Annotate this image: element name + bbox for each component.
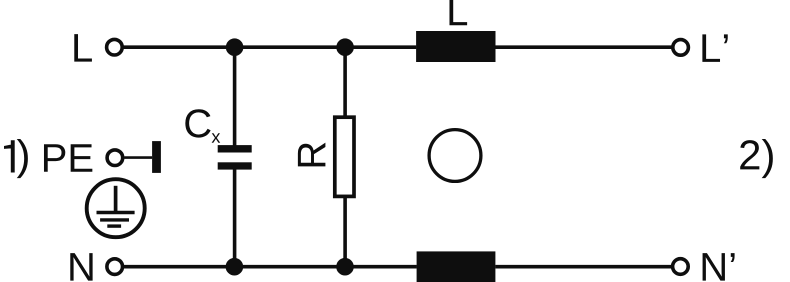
junction dot top-right (336, 38, 354, 56)
label L' (702, 34, 727, 62)
wire PE stub (124, 156, 152, 159)
wire bottom rail right segment (495, 265, 671, 269)
inductor body (bottom) (417, 251, 496, 282)
wire top rail right segment (496, 45, 672, 49)
wire top rail left segment (123, 45, 416, 49)
terminal N (107, 259, 123, 275)
label L (top inductor) (449, 0, 467, 25)
capacitor C plate top (218, 145, 252, 152)
resistor R body (335, 117, 354, 196)
junction dot bottom-left (226, 258, 244, 276)
footnote 2) (740, 139, 773, 178)
wire bottom rail left segment (124, 265, 417, 269)
wire resistor branch upper (343, 47, 347, 115)
label PE (44, 144, 92, 172)
terminal PE (107, 150, 123, 166)
terminal L (107, 39, 123, 55)
earth symbol bar 2 (100, 218, 129, 221)
label N (left terminal) (70, 253, 92, 281)
wire resistor branch lower (343, 197, 347, 267)
capacitor C plate bottom (218, 162, 252, 169)
protective earth symbol circle (87, 179, 145, 237)
earth symbol bar 1 (97, 211, 135, 215)
junction dot bottom-right (336, 258, 354, 276)
inductor L body (top) (416, 31, 495, 62)
terminal N' (673, 259, 689, 275)
footnote 1) paren (17, 139, 28, 178)
label N' (703, 253, 735, 281)
PE terminal bar (152, 141, 161, 173)
earth symbol bar 3 (107, 224, 121, 227)
footnote 1) digit one (4, 140, 15, 172)
wire capacitor branch upper (233, 47, 237, 145)
indicator circle (lamp) (429, 130, 481, 182)
wire capacitor branch lower (233, 169, 237, 266)
terminal L' (673, 40, 689, 56)
label L (left terminal) (74, 34, 92, 62)
label R (rotated) (298, 143, 326, 167)
earth symbol vertical stroke (114, 186, 118, 212)
label Cx (185, 109, 210, 137)
junction dot top-left (226, 38, 244, 56)
